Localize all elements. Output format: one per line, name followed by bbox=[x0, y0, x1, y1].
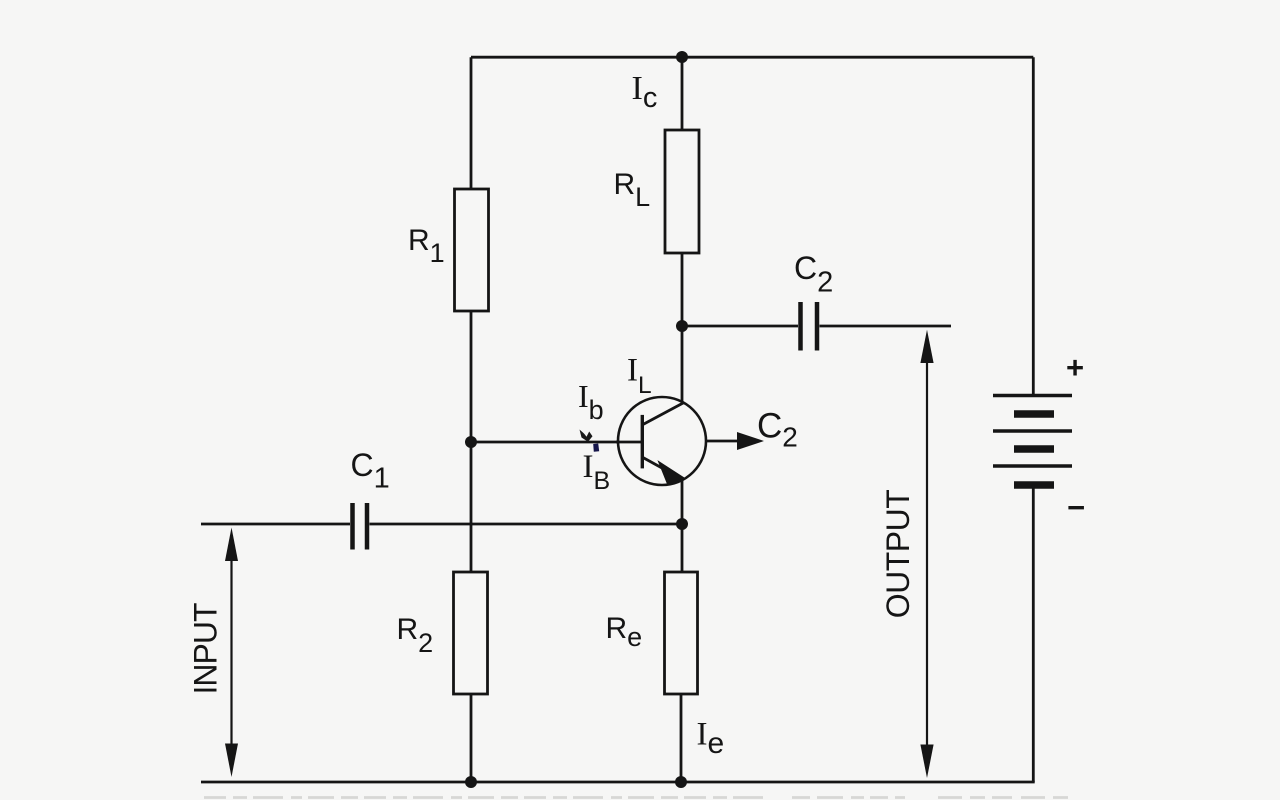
wire top rail bbox=[471, 56, 1033, 59]
wire base node down to R2 bbox=[470, 442, 473, 572]
wire output left segment bbox=[682, 325, 798, 328]
wire emitter bbox=[681, 478, 684, 524]
wire collector bbox=[681, 326, 684, 404]
capacitor C1 bbox=[353, 503, 368, 550]
wire RL bottom to C2 node bbox=[681, 253, 684, 326]
resistor Re bbox=[665, 572, 698, 694]
wire collector current arrow bbox=[706, 440, 742, 443]
wire input left segment bbox=[201, 523, 350, 526]
wire bottom rail bbox=[201, 781, 1035, 784]
speck artifact bbox=[593, 444, 599, 452]
arrow base current bbox=[580, 430, 593, 442]
arrow OUTPUT bbox=[920, 330, 933, 778]
wire RL top bbox=[681, 57, 684, 130]
resistor RL bbox=[665, 130, 699, 253]
arrow INPUT bbox=[225, 528, 238, 778]
resistor R1 bbox=[455, 189, 489, 311]
svg-text:+: + bbox=[1066, 350, 1084, 385]
wire Re bottom bbox=[680, 694, 683, 782]
node bottom middle junction bbox=[675, 776, 687, 788]
node collector output junction bbox=[676, 320, 688, 332]
resistor R2 bbox=[454, 572, 488, 694]
svg-text:OUTPUT: OUTPUT bbox=[880, 490, 916, 619]
node emitter junction bbox=[676, 518, 688, 530]
capacitor C2 bbox=[801, 302, 818, 351]
wire R1 top bbox=[470, 57, 473, 189]
battery B1 bbox=[993, 396, 1072, 486]
svg-text:−: − bbox=[1067, 490, 1085, 525]
wire battery bottom bbox=[1032, 485, 1035, 782]
wire R1 bottom to base node bbox=[470, 311, 473, 442]
wire Re top bbox=[681, 524, 684, 572]
wire output right segment bbox=[820, 325, 952, 328]
wire base bbox=[471, 441, 641, 444]
transistor Q1 bbox=[616, 397, 706, 485]
node bottom left junction bbox=[465, 776, 477, 788]
node base junction bbox=[465, 436, 477, 448]
cropped text remnants bottom bbox=[204, 796, 1075, 799]
wire battery top bbox=[1032, 57, 1035, 394]
node top junction bbox=[676, 51, 688, 63]
wire input right segment bbox=[370, 523, 683, 526]
arrowhead collector current bbox=[737, 432, 764, 450]
svg-text:INPUT: INPUT bbox=[188, 603, 224, 694]
wire R2 bottom bbox=[470, 694, 473, 782]
